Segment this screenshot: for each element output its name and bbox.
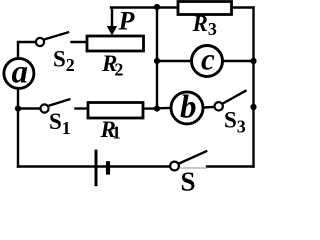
svg-text:S: S bbox=[181, 167, 196, 192]
node: c branch / middle vertical bbox=[154, 58, 160, 64]
wire b branch left bbox=[157, 107, 170, 110]
switch S2 bbox=[36, 32, 69, 46]
switch S1 bbox=[40, 99, 70, 113]
node: top tee (middle vertical / top wire) bbox=[154, 4, 160, 10]
svg-text:c: c bbox=[201, 42, 215, 77]
wire b to S3 bbox=[204, 106, 214, 109]
wire c branch left bbox=[157, 60, 191, 62]
node: S1 branch on left wire bbox=[15, 105, 21, 111]
wire S1 branch (node to switch) bbox=[18, 107, 40, 109]
switch S (main) bbox=[170, 151, 207, 171]
node: R1-b junction bbox=[154, 106, 160, 112]
svg-text:b: b bbox=[180, 90, 197, 126]
meter b (voltmeter) bbox=[171, 92, 203, 124]
switch S3 bbox=[215, 90, 247, 110]
wire top (wiper node to top-right corner) bbox=[111, 6, 254, 8]
wire middle vertical bbox=[156, 8, 158, 109]
wire bottom left (to switch S) bbox=[18, 165, 172, 167]
wire left vertical (ammeter branch) bbox=[18, 42, 35, 167]
node: S3 contact on right wire bbox=[250, 104, 256, 110]
resistor R2 (rheostat body) bbox=[87, 36, 144, 51]
svg-text:P: P bbox=[118, 6, 136, 35]
meter c (voltmeter) bbox=[192, 46, 223, 77]
wire c branch right bbox=[223, 60, 254, 62]
resistor R1 bbox=[88, 103, 143, 119]
wire right vertical bbox=[252, 8, 254, 167]
wire bottom right (switch S to corner) bbox=[207, 165, 254, 167]
wire S2 to R2 bbox=[72, 41, 88, 43]
wire S1 to R1 bbox=[76, 107, 89, 109]
wire R1 to middle node bbox=[143, 107, 157, 109]
resistor R3 bbox=[178, 2, 232, 15]
ammeter A (meter a) bbox=[4, 58, 34, 88]
svg-text:a: a bbox=[12, 55, 29, 91]
potentiometer wiper arrow P bbox=[107, 8, 117, 36]
battery short plate (-) bbox=[106, 161, 110, 174]
battery long plate (+) bbox=[95, 150, 98, 187]
node: c branch on right wire bbox=[250, 58, 256, 64]
